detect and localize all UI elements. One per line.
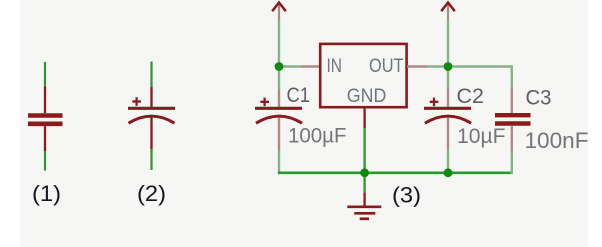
- pin -: [447, 118, 449, 151]
- plus sign: [430, 98, 439, 107]
- capacitor C? (1) non-polarized symbol: [28, 62, 63, 206]
- node gnd junction: [360, 168, 369, 177]
- wire C2 bottom: [447, 150, 449, 173]
- wire gnd drop: [363, 128, 365, 192]
- plate curved: [129, 116, 175, 123]
- pin OUT: [407, 65, 427, 67]
- svg-text:(2): (2): [137, 181, 166, 206]
- capacitor C? (2) polarized symbol: [128, 62, 175, 207]
- plus sign: [132, 97, 141, 106]
- svg-text:C2: C2: [457, 85, 485, 108]
- wire rail left lower: [278, 67, 280, 90]
- pin +: [150, 87, 152, 107]
- wire OUT to node: [427, 65, 448, 67]
- plate straight: [255, 107, 302, 110]
- wire bottom rail: [278, 172, 512, 175]
- wire: [44, 62, 46, 87]
- capacitor C2 polarized: [424, 85, 506, 150]
- wire node to IN: [279, 65, 301, 67]
- pin 1: [44, 87, 46, 114]
- pin GND stub: [363, 107, 365, 128]
- svg-text:OUT: OUT: [369, 56, 404, 77]
- regulator U1 box: [320, 44, 406, 107]
- wire C3 bottom: [511, 151, 513, 174]
- wire: [44, 151, 46, 171]
- plate straight: [424, 107, 471, 110]
- pin IN: [301, 65, 319, 67]
- wire: [150, 62, 152, 88]
- plate top: [495, 113, 531, 117]
- pin 2: [511, 126, 513, 151]
- plate bottom: [28, 122, 63, 127]
- svg-text:(1): (1): [32, 181, 61, 206]
- plus sign: [260, 98, 269, 107]
- plate curved: [425, 116, 471, 123]
- node B junction: [444, 62, 453, 71]
- circuit (3): [255, 3, 589, 219]
- wire C3 top: [511, 65, 513, 87]
- pin +: [447, 89, 449, 107]
- pin +: [278, 89, 280, 107]
- plate top: [28, 113, 63, 118]
- pin -: [150, 118, 152, 150]
- pin 2: [44, 126, 46, 151]
- ground symbol: [347, 207, 381, 219]
- ground pin stub: [363, 192, 365, 205]
- capacitor C3 non-polarized: [495, 87, 589, 154]
- svg-text:100nF: 100nF: [525, 128, 589, 153]
- plate bottom: [495, 121, 531, 125]
- svg-text:GND: GND: [347, 86, 387, 107]
- node C junction: [444, 168, 453, 177]
- wire C1 bottom: [278, 151, 280, 173]
- wire rail right lower: [447, 67, 449, 90]
- svg-text:C1: C1: [287, 84, 311, 107]
- svg-text:100µF: 100µF: [288, 125, 347, 148]
- plate curved: [256, 116, 302, 123]
- wire rail left: [278, 20, 280, 67]
- svg-text:IN: IN: [327, 56, 343, 77]
- svg-text:10µF: 10µF: [457, 125, 506, 148]
- pin -: [278, 118, 280, 152]
- svg-text:C3: C3: [526, 87, 552, 110]
- node A junction: [275, 62, 284, 71]
- wire node B to C3: [448, 65, 512, 67]
- capacitor C1 polarized: [255, 84, 347, 151]
- plate straight: [128, 107, 175, 110]
- wire rail right: [447, 20, 449, 67]
- power arrow VCC left: [272, 3, 286, 21]
- pin 1: [511, 87, 513, 113]
- power arrow VCC right: [441, 3, 455, 21]
- wire: [150, 149, 152, 170]
- svg-text:(3): (3): [392, 183, 421, 208]
